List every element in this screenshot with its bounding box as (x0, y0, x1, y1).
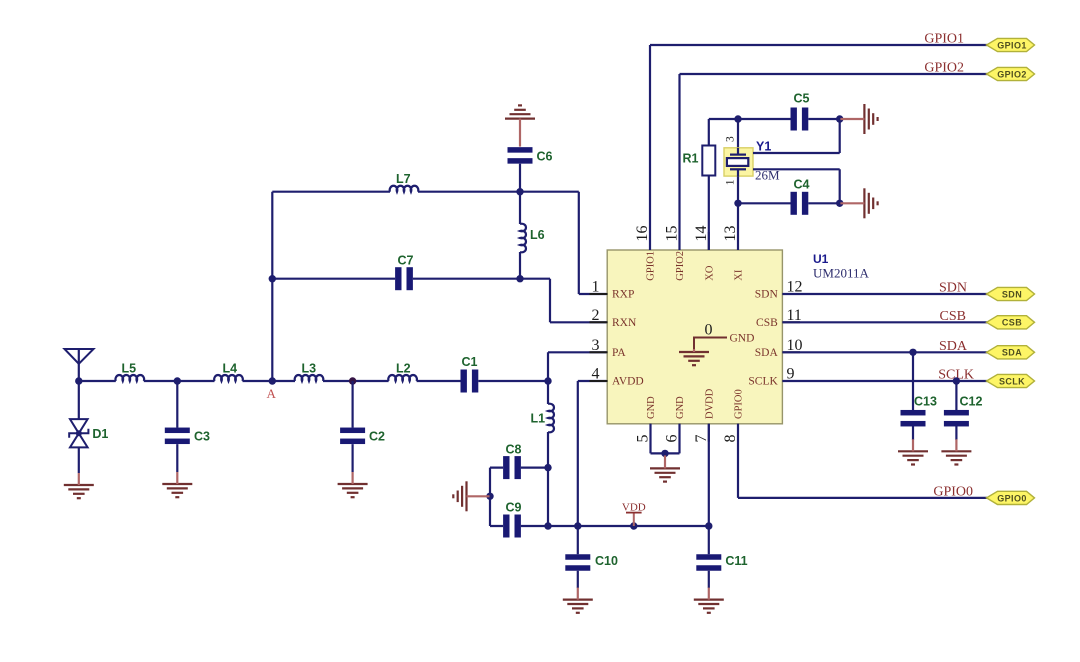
svg-text:XI: XI (734, 269, 745, 281)
inductor L3 (295, 362, 324, 382)
svg-text:C13: C13 (914, 395, 937, 409)
capacitor C3 (165, 428, 210, 445)
wire crystal case top (753, 119, 840, 153)
pin 4 AVDD (590, 366, 644, 388)
wire L7 row (272, 192, 607, 294)
svg-text:SDA: SDA (1002, 348, 1022, 358)
pin 8 GPIO0 (722, 389, 745, 442)
node A junction (269, 377, 276, 384)
wire C12 stem (955, 381, 957, 440)
svg-text:L7: L7 (396, 172, 411, 186)
svg-text:4: 4 (592, 366, 600, 383)
port flag GPIO1 (987, 38, 1035, 51)
wire SCLK net (782, 380, 987, 382)
wire pin 15 GPIO2 net (680, 74, 988, 250)
svg-text:L1: L1 (531, 412, 546, 426)
wire rail seg2 (144, 380, 215, 382)
wire C11 stem (708, 526, 710, 588)
wire rail seg6 (478, 380, 548, 382)
svg-text:16: 16 (634, 226, 651, 242)
svg-text:C6: C6 (537, 150, 553, 164)
svg-text:L4: L4 (223, 362, 238, 376)
ground C2 (338, 472, 368, 497)
capacitor C2 (340, 428, 385, 445)
svg-text:L3: L3 (302, 362, 317, 376)
wire VDD rail (490, 525, 709, 527)
port flag CSB (987, 316, 1035, 329)
capacitor C12 (944, 395, 983, 427)
wire C7 row (272, 279, 607, 323)
capacitor C9 (503, 501, 521, 538)
node left-gnd junction (486, 493, 493, 500)
svg-text:C9: C9 (506, 501, 522, 515)
node pins 5-6 junction (661, 450, 668, 457)
inductor L4 (214, 362, 243, 382)
svg-text:1: 1 (592, 279, 600, 296)
capacitor C5 (791, 92, 810, 131)
svg-text:DVDD: DVDD (704, 388, 715, 419)
wire PA pin3 (548, 352, 608, 381)
port flag GPIO2 (987, 67, 1035, 80)
capacitor C4 (791, 178, 810, 215)
svg-text:GND: GND (675, 396, 686, 419)
wire L6 column (519, 192, 521, 279)
node rail junction VDD (630, 522, 637, 529)
node C4 right junction (836, 200, 843, 207)
wire pin 7 DVDD to rail (708, 424, 710, 526)
port flag SDN (987, 287, 1035, 300)
wire node A up (271, 192, 273, 381)
svg-text:C4: C4 (794, 178, 810, 192)
pin 10 SDA (755, 337, 803, 359)
svg-text:3: 3 (725, 136, 737, 142)
node L6 bottom junction (516, 275, 523, 282)
wire pins 5-6 to ground (651, 424, 680, 454)
node antenna junction (75, 377, 82, 384)
capacitor C11 (696, 554, 747, 571)
pin 12 SDN (755, 279, 803, 301)
node PA junction (544, 377, 551, 384)
ground IC pin0 (679, 349, 709, 365)
wire C8 row (490, 467, 548, 469)
op IC U1 body (607, 250, 782, 424)
wire pin 14 to R1 (708, 176, 710, 251)
svg-text:GPIO1: GPIO1 (997, 40, 1027, 50)
svg-text:GPIO0: GPIO0 (997, 493, 1027, 503)
svg-text:GPIO0: GPIO0 (933, 484, 973, 499)
svg-text:7: 7 (693, 435, 710, 443)
pin 1 RXP (590, 279, 635, 301)
svg-text:RXN: RXN (612, 317, 637, 329)
pin 15 GPIO2 (664, 226, 687, 281)
pin 16 GPIO1 (634, 226, 657, 281)
svg-text:GPIO0: GPIO0 (734, 389, 745, 419)
pin 9 SCLK (748, 366, 800, 388)
wire SDN net (782, 293, 987, 295)
wire C4 row (738, 202, 841, 204)
inductor L6 (520, 224, 545, 253)
node C5 right junction (836, 115, 843, 122)
ground D1 (64, 473, 94, 498)
wire L1 column (547, 381, 549, 468)
svg-text:SCLK: SCLK (999, 376, 1025, 386)
ground left of C8/C9 (453, 481, 489, 511)
wire C10 stem (577, 526, 579, 588)
svg-text:C2: C2 (369, 430, 385, 444)
power VDD symbol (622, 502, 646, 526)
ground C10 (563, 588, 593, 613)
svg-text:R1: R1 (683, 152, 699, 166)
ground C11 (694, 588, 724, 613)
inductor L2 (388, 362, 417, 382)
node SCLK junction (953, 377, 960, 384)
svg-text:SDN: SDN (1002, 289, 1022, 299)
node C8 junction (544, 464, 551, 471)
svg-text:AVDD: AVDD (612, 376, 644, 388)
wire main rail seg1 (79, 380, 116, 382)
capacitor C1 (461, 355, 479, 393)
inductor L5 (116, 362, 145, 382)
svg-text:GPIO2: GPIO2 (997, 69, 1027, 79)
capacitor C10 (565, 554, 618, 571)
svg-text:L6: L6 (530, 228, 545, 242)
svg-text:C3: C3 (194, 430, 210, 444)
svg-text:A: A (267, 386, 277, 401)
wire crystal top stem (737, 119, 739, 148)
pin 5 GND (635, 396, 658, 443)
svg-text:C5: C5 (794, 92, 810, 106)
svg-text:D1: D1 (92, 427, 108, 441)
svg-text:GND: GND (646, 396, 657, 419)
svg-text:3: 3 (592, 337, 600, 354)
svg-text:C8: C8 (506, 443, 522, 457)
pin 11 CSB (756, 307, 802, 329)
wire C8-C9 left column (489, 468, 491, 526)
svg-text:GPIO1: GPIO1 (924, 32, 964, 47)
wire CSB net (782, 321, 987, 323)
capacitor C13 (901, 395, 937, 427)
svg-text:14: 14 (693, 226, 710, 242)
antenna (65, 349, 94, 381)
capacitor C8 (503, 443, 521, 480)
wire crystal bottom stem (737, 176, 739, 250)
wire C2 stem (352, 381, 354, 472)
svg-text:1: 1 (725, 179, 737, 185)
port flag GPIO0 (987, 491, 1035, 504)
svg-text:C12: C12 (960, 395, 983, 409)
ground C12 (941, 439, 971, 464)
svg-text:2: 2 (592, 307, 600, 324)
wire rail seg5 (417, 380, 461, 382)
node rail junction 2 (574, 522, 581, 529)
svg-text:U1: U1 (813, 252, 829, 266)
svg-text:UM2011A: UM2011A (813, 266, 869, 281)
ground C13 (898, 439, 928, 464)
IC internal pin 0 GND (694, 322, 754, 351)
wire pin 16 GPIO1 net (650, 45, 987, 250)
wire R1 top (709, 119, 738, 146)
wire SDA net (782, 351, 987, 353)
capacitor C7 (395, 254, 413, 291)
svg-text:CSB: CSB (1002, 318, 1022, 328)
svg-text:GND: GND (730, 333, 755, 345)
ground pins 5-6 (650, 455, 680, 481)
node rail junction 1 (544, 522, 551, 529)
wire C5 row (738, 118, 841, 120)
wire rail seg3 (243, 380, 296, 382)
wire C13 stem (912, 352, 914, 440)
svg-text:GPIO2: GPIO2 (675, 251, 686, 281)
pin 13 XI (722, 226, 745, 281)
node XI bottom junction (734, 200, 741, 207)
node C6 junction (516, 188, 523, 195)
svg-text:SDA: SDA (939, 339, 968, 354)
svg-text:C1: C1 (462, 355, 478, 369)
svg-text:5: 5 (635, 435, 652, 443)
capacitor C6 (508, 147, 553, 164)
svg-text:PA: PA (612, 347, 626, 359)
svg-text:13: 13 (722, 226, 739, 242)
wire antenna to D1 (78, 381, 80, 419)
wire rail seg4 (323, 380, 389, 382)
crystal Y1 (724, 140, 780, 183)
svg-text:RXP: RXP (612, 289, 634, 301)
ground C3 (162, 472, 192, 497)
svg-text:C11: C11 (725, 554, 747, 568)
diode D1 (TVS) (69, 419, 108, 447)
svg-text:C10: C10 (595, 554, 618, 568)
inductor L1 (531, 404, 554, 433)
pin 2 RXN (590, 307, 637, 329)
node XI top junction (734, 115, 741, 122)
wire crystal case bottom (753, 169, 840, 203)
svg-text:L5: L5 (122, 362, 137, 376)
svg-text:Y1: Y1 (756, 140, 771, 154)
ground right of C5 (840, 104, 877, 134)
wire L1 down to rail (547, 468, 549, 526)
node C2 junction (349, 377, 356, 384)
svg-text:8: 8 (722, 435, 739, 443)
pin 7 DVDD (693, 388, 716, 442)
wire C6 below (519, 164, 521, 192)
svg-text:VDD: VDD (622, 502, 646, 514)
wire pin 8 GPIO0 (738, 424, 987, 498)
ground above C6 (505, 105, 535, 146)
port flag SCLK (987, 374, 1035, 387)
resistor R1 (683, 146, 716, 176)
svg-text:GPIO2: GPIO2 (924, 61, 964, 76)
svg-text:SCLK: SCLK (748, 376, 778, 388)
svg-text:0: 0 (705, 322, 713, 339)
node rail junction 3 (705, 522, 712, 529)
inductor L7 (390, 172, 419, 192)
svg-text:6: 6 (664, 435, 681, 443)
svg-text:GPIO1: GPIO1 (646, 251, 657, 281)
node C7 left junction (269, 275, 276, 282)
svg-text:SDA: SDA (755, 347, 779, 359)
svg-text:CSB: CSB (756, 317, 778, 329)
node C3 junction (174, 377, 181, 384)
pin 14 XO (693, 226, 716, 281)
svg-text:CSB: CSB (940, 309, 966, 324)
port flag SDA (987, 346, 1035, 359)
svg-text:L2: L2 (396, 362, 411, 376)
svg-text:SDN: SDN (755, 289, 779, 301)
node SDA junction (909, 349, 916, 356)
svg-text:SDN: SDN (939, 281, 967, 296)
svg-text:C7: C7 (398, 254, 414, 268)
wire D1 to ground (78, 447, 80, 473)
wire C3 stem (176, 381, 178, 472)
svg-text:15: 15 (664, 226, 681, 242)
pin 3 PA (590, 337, 627, 359)
ground right of C4 (840, 188, 877, 218)
wire AVDD pin4 (578, 381, 608, 526)
svg-text:XO: XO (704, 265, 715, 281)
pin 6 GND (664, 396, 687, 443)
